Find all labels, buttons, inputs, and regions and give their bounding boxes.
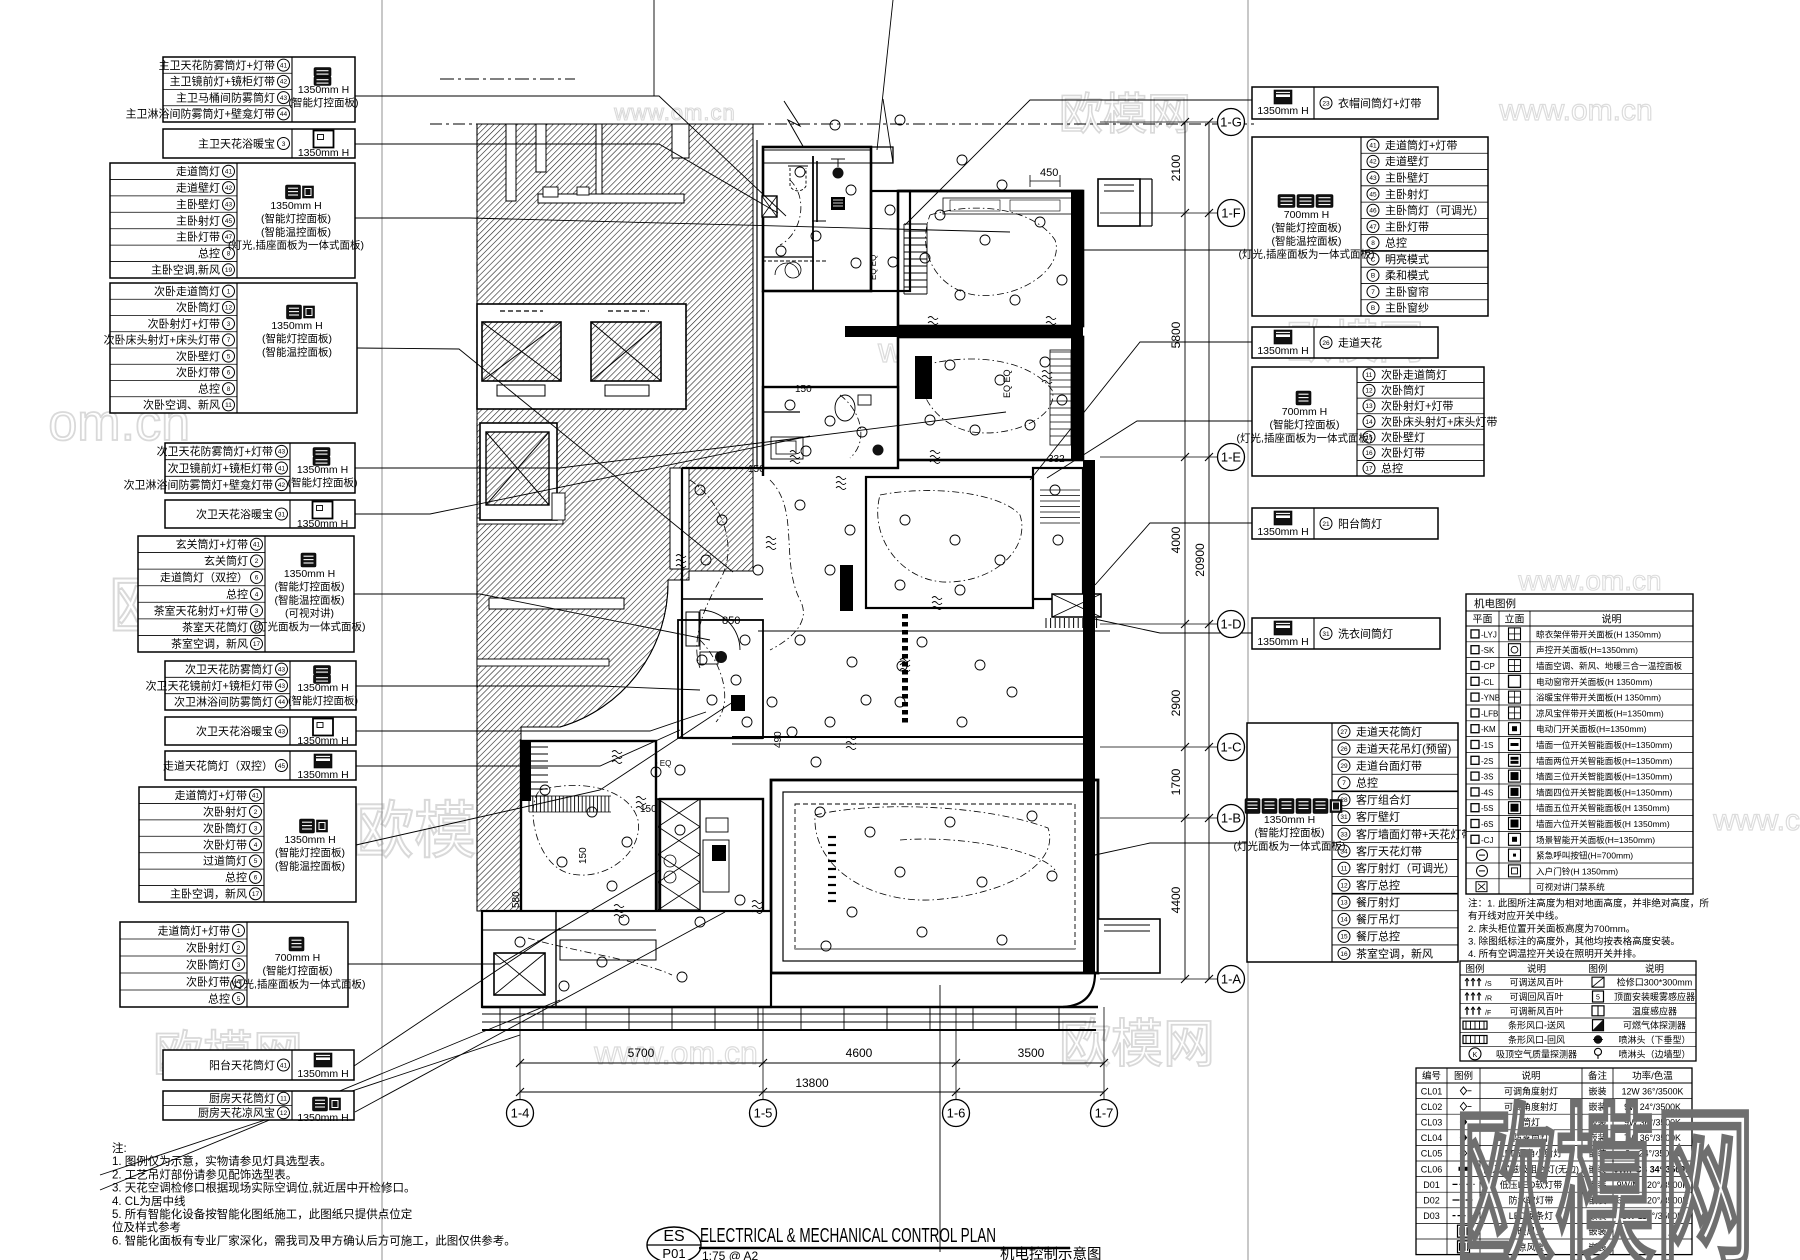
svg-text:次卧灯带: 次卧灯带	[1381, 445, 1425, 459]
svg-text:茶室天花筒灯: 茶室天花筒灯	[182, 620, 248, 634]
svg-text:走道天花吊灯(预留): 走道天花吊灯(预留)	[1356, 741, 1451, 755]
svg-text:(灯光,插座面板为一体式面板): (灯光,插座面板为一体式面板)	[228, 239, 364, 252]
svg-text:(智能灯控面板): (智能灯控面板)	[261, 212, 331, 225]
luminaire schedule table	[1416, 1068, 1692, 1255]
svg-text:41: 41	[253, 542, 261, 549]
svg-text:-SK: -SK	[1481, 646, 1495, 655]
svg-text:16: 16	[1340, 951, 1348, 958]
svg-text:(智能灯控面板): (智能灯控面板)	[1272, 221, 1342, 234]
annotation box L2 主卫浴暖宝	[163, 129, 355, 159]
svg-text:次卧空调、新风: 次卧空调、新风	[143, 398, 220, 412]
elevator shaft E3	[480, 423, 565, 520]
svg-text:150: 150	[795, 384, 812, 395]
svg-text:5800: 5800	[1169, 321, 1183, 348]
svg-text:可调回风百叶: 可调回风百叶	[1509, 992, 1563, 1002]
svg-text:顶面安装暖雾感应器: 顶面安装暖雾感应器	[1614, 991, 1695, 1002]
sheet fold line x=382	[381, 0, 383, 1260]
title block ES P01	[647, 1225, 1102, 1260]
svg-text:走道天花: 走道天花	[1338, 335, 1382, 349]
svg-text:31: 31	[1340, 814, 1348, 821]
svg-text:2. 床头柜位置开关面板高度为700mm。: 2. 床头柜位置开关面板高度为700mm。	[1468, 923, 1635, 935]
svg-text:走道筒灯+灯带: 走道筒灯+灯带	[1385, 138, 1457, 152]
svg-text:说明: 说明	[1645, 963, 1664, 975]
svg-text:43: 43	[278, 728, 286, 735]
svg-text:CL01: CL01	[1421, 1086, 1443, 1096]
svg-text:45: 45	[1369, 191, 1377, 198]
annotation box L1 主卫灯控	[126, 57, 359, 122]
svg-text:1-E: 1-E	[1221, 450, 1242, 465]
svg-text:走道壁灯: 走道壁灯	[1385, 154, 1429, 168]
svg-text:41: 41	[278, 465, 286, 472]
svg-text:8: 8	[227, 251, 231, 258]
kitchen walls	[658, 799, 763, 938]
svg-text:1-F: 1-F	[1221, 206, 1241, 221]
svg-text:欧模网: 欧模网	[1059, 1016, 1215, 1074]
annotation box L5 次卫灯控	[124, 443, 358, 493]
svg-text:150: 150	[640, 804, 657, 815]
svg-text:29: 29	[1340, 763, 1348, 770]
svg-text:可调新风百叶: 可调新风百叶	[1509, 1005, 1563, 1016]
svg-text:43: 43	[1369, 175, 1377, 182]
svg-text:欧模网: 欧模网	[1455, 1093, 1755, 1260]
second bathroom walls	[763, 387, 898, 468]
svg-text:(智能灯控面板): (智能灯控面板)	[275, 580, 345, 593]
svg-text:餐厅总控: 餐厅总控	[1356, 929, 1400, 943]
annotation box L4 次卧灯控	[104, 283, 357, 413]
annotation box L9 次卫2浴暖宝	[165, 717, 356, 747]
svg-text:(智能灯控面板): (智能灯控面板)	[288, 694, 358, 707]
master bathroom fixtures	[646, 159, 878, 768]
svg-text:www.c: www.c	[1712, 804, 1800, 837]
duct shaft at bath left wall	[762, 196, 777, 217]
svg-text:17: 17	[1365, 466, 1373, 473]
svg-text:主卧壁灯: 主卧壁灯	[176, 197, 220, 211]
svg-text:注:: 注:	[112, 1141, 127, 1155]
svg-text:有开线对应开关中线。: 有开线对应开关中线。	[1468, 910, 1564, 922]
svg-text:客厅墙面灯带+天花灯带: 客厅墙面灯带+天花灯带	[1356, 827, 1472, 841]
svg-text:主卧射灯: 主卧射灯	[1385, 187, 1429, 201]
bottom exterior windows	[482, 1007, 1098, 1030]
svg-text:850: 850	[722, 615, 740, 627]
svg-text:洗衣间筒灯: 洗衣间筒灯	[1338, 626, 1393, 640]
annotation box L3 主卧灯控	[110, 163, 364, 278]
svg-text:立面: 立面	[1505, 613, 1525, 626]
svg-text:主卧壁灯: 主卧壁灯	[1385, 170, 1429, 184]
svg-text:1350mm H: 1350mm H	[297, 464, 348, 476]
svg-text:5: 5	[227, 353, 231, 360]
svg-text:次卫天花浴暖宝: 次卫天花浴暖宝	[196, 724, 273, 738]
svg-text:45: 45	[225, 218, 233, 225]
svg-text:42: 42	[225, 185, 233, 192]
svg-text:/R: /R	[1485, 996, 1492, 1003]
svg-text:7: 7	[227, 337, 231, 344]
hvac legend table	[1460, 961, 1696, 1061]
svg-text:1:75 @ A2: 1:75 @ A2	[702, 1249, 759, 1260]
svg-text:次卫天花镜前灯+镜柜灯带: 次卫天花镜前灯+镜柜灯带	[146, 678, 273, 692]
svg-text:7: 7	[1371, 289, 1375, 296]
svg-text:机电图例: 机电图例	[1474, 597, 1516, 610]
svg-text:1-B: 1-B	[1221, 811, 1241, 826]
svg-text:墙面空调、新风、地暖三合一温控面板: 墙面空调、新风、地暖三合一温控面板	[1536, 660, 1683, 671]
svg-text:场景智能开关面板(H=1350mm): 场景智能开关面板(H=1350mm)	[1536, 834, 1655, 845]
AC platform top right	[1098, 179, 1152, 226]
svg-text:44: 44	[280, 111, 288, 118]
svg-text:编号: 编号	[1422, 1070, 1441, 1082]
ceiling wiring dashed loops	[528, 180, 1056, 975]
svg-text:走道筒灯+灯带: 走道筒灯+灯带	[158, 923, 230, 937]
svg-text:位及样式参考: 位及样式参考	[112, 1220, 181, 1234]
svg-text:次卧筒灯: 次卧筒灯	[176, 300, 220, 314]
svg-text:43: 43	[278, 683, 286, 690]
svg-text:46: 46	[1369, 208, 1377, 215]
svg-text:13800: 13800	[795, 1076, 829, 1090]
svg-text:4: 4	[254, 842, 258, 849]
svg-text:3500: 3500	[1018, 1046, 1045, 1060]
svg-text:温度感应器: 温度感应器	[1632, 1005, 1677, 1016]
svg-text:6: 6	[254, 875, 258, 882]
svg-text:26: 26	[1322, 340, 1330, 347]
svg-text:4. 所有空调温控开关设在照明开关并排。: 4. 所有空调温控开关设在照明开关并排。	[1468, 948, 1642, 960]
svg-text:43: 43	[280, 95, 288, 102]
svg-text:主卫马桶间防雾筒灯: 主卫马桶间防雾筒灯	[176, 90, 275, 104]
svg-text:阳台天花筒灯: 阳台天花筒灯	[209, 1058, 275, 1072]
svg-text:11: 11	[1366, 372, 1373, 379]
svg-text:(智能灯控面板): (智能灯控面板)	[289, 96, 359, 109]
svg-text:可燃气体探测器: 可燃气体探测器	[1623, 1020, 1686, 1031]
building core hatched region	[477, 124, 753, 911]
svg-text:42: 42	[278, 482, 286, 489]
svg-text:平面: 平面	[1473, 615, 1493, 626]
svg-text:次卧射灯: 次卧射灯	[203, 804, 247, 818]
svg-text:可调送风百叶: 可调送风百叶	[1509, 977, 1563, 988]
svg-text:可视对讲门禁系统: 可视对讲门禁系统	[1536, 881, 1605, 892]
annotation box L12 次卧2灯控	[120, 922, 365, 1007]
svg-text:主卫天花防雾筒灯+灯带: 主卫天花防雾筒灯+灯带	[159, 58, 275, 72]
svg-text:(智能温控面板): (智能温控面板)	[262, 345, 332, 358]
svg-text:电动门开关面板(H=1350mm): 电动门开关面板(H=1350mm)	[1536, 723, 1647, 734]
svg-text:-LFB: -LFB	[1481, 709, 1498, 718]
top parapet wall band	[766, 99, 893, 163]
svg-text:1-G: 1-G	[1220, 115, 1242, 130]
svg-text:580: 580	[511, 891, 522, 908]
svg-text:2: 2	[255, 558, 259, 565]
svg-text:走道筒灯（双控）: 走道筒灯（双控）	[160, 570, 248, 584]
elevator shaft E1	[482, 311, 561, 396]
svg-text:5: 5	[1596, 995, 1600, 1002]
svg-text:2. 工艺吊灯部份请参见配饰选型表。: 2. 工艺吊灯部份请参见配饰选型表。	[112, 1167, 297, 1181]
dining area beam wall	[732, 736, 1083, 738]
svg-text:332: 332	[1048, 454, 1065, 465]
svg-text:45: 45	[278, 763, 286, 770]
svg-text:紧急呼叫按钮(H=700mm): 紧急呼叫按钮(H=700mm)	[1536, 850, 1633, 861]
svg-text:5: 5	[254, 858, 258, 865]
svg-text:总控: 总控	[198, 246, 220, 260]
svg-text:主卧空调,新风: 主卧空调,新风	[151, 263, 220, 277]
svg-text:1-D: 1-D	[1221, 617, 1242, 632]
annotation box L10 走道筒灯	[163, 751, 356, 781]
svg-text:(灯光,插座面板为一体式面板): (灯光,插座面板为一体式面板)	[1239, 248, 1375, 261]
svg-text:总控: 总控	[208, 991, 230, 1005]
svg-text:主卫淋浴间防雾筒灯+壁龛灯带: 主卫淋浴间防雾筒灯+壁龛灯带	[126, 107, 275, 121]
svg-text:1700: 1700	[1169, 768, 1183, 795]
svg-text:27: 27	[1340, 729, 1348, 736]
svg-text:41: 41	[280, 62, 288, 69]
svg-text:43: 43	[278, 666, 286, 673]
svg-text:墙面一位开关智能面板(H=1350mm): 墙面一位开关智能面板(H=1350mm)	[1536, 739, 1672, 750]
svg-text:19: 19	[225, 267, 233, 274]
svg-text:(智能温控面板): (智能温控面板)	[261, 225, 331, 238]
lighting symbol circles	[515, 115, 1067, 991]
svg-text:41: 41	[252, 793, 260, 800]
svg-text:声控开关面板(H=1350mm): 声控开关面板(H=1350mm)	[1536, 644, 1638, 655]
svg-text:/S: /S	[1485, 981, 1492, 988]
annotation box R1 衣帽间	[1252, 87, 1438, 119]
legend table 机电图例	[1466, 594, 1693, 894]
svg-text:/F: /F	[1485, 1010, 1491, 1017]
svg-text:(智能温控面板): (智能温控面板)	[275, 593, 345, 606]
svg-text:1350mm H: 1350mm H	[284, 568, 335, 580]
svg-text:2: 2	[237, 945, 241, 952]
svg-text:(智能温控面板): (智能温控面板)	[1272, 234, 1342, 247]
svg-text:备注: 备注	[1588, 1070, 1608, 1082]
master bedroom walls	[898, 191, 1083, 326]
svg-text:(智能灯控面板): (智能灯控面板)	[1255, 826, 1325, 839]
svg-text:31: 31	[278, 511, 286, 518]
svg-text:主卧窗帘: 主卧窗帘	[1385, 284, 1429, 298]
svg-text:D03: D03	[1423, 1211, 1440, 1221]
svg-text:主卧灯带: 主卧灯带	[176, 231, 220, 244]
svg-text:700mm H: 700mm H	[1284, 209, 1330, 221]
svg-text:1350mm H: 1350mm H	[297, 518, 348, 530]
svg-text:2100: 2100	[1169, 154, 1183, 181]
svg-text:12: 12	[225, 305, 233, 312]
svg-text:次卧灯带: 次卧灯带	[186, 974, 230, 988]
svg-text:1350mm H: 1350mm H	[1257, 345, 1308, 357]
svg-text:次卧筒灯: 次卧筒灯	[186, 957, 230, 971]
bottom grid bubbles	[507, 1100, 1118, 1127]
svg-text:墙面两位开关智能面板(H=1350mm): 墙面两位开关智能面板(H=1350mm)	[1536, 755, 1672, 766]
switch wave symbols	[612, 317, 1056, 918]
second bedroom walls	[898, 337, 1083, 460]
svg-text:1350mm H: 1350mm H	[298, 84, 349, 96]
svg-text:说明: 说明	[1527, 963, 1546, 975]
svg-text:次卧灯带: 次卧灯带	[176, 365, 220, 379]
laundry room right	[1033, 468, 1101, 628]
svg-text:1350mm H: 1350mm H	[270, 200, 321, 212]
svg-text:(智能灯控面板): (智能灯控面板)	[275, 846, 345, 859]
svg-text:5: 5	[237, 996, 241, 1003]
svg-text:1: 1	[227, 288, 231, 295]
svg-text:3: 3	[282, 141, 286, 148]
svg-text:总控: 总控	[225, 870, 247, 884]
svg-text:4400: 4400	[1169, 886, 1183, 913]
svg-text:4000: 4000	[1169, 526, 1183, 553]
svg-text:(灯光,插座面板为一体式面板): (灯光,插座面板为一体式面板)	[230, 977, 366, 990]
svg-text:1: 1	[237, 928, 241, 935]
svg-text:6. 智能化面板有专业厂家深化，需我司及甲方确认后方可施工，: 6. 智能化面板有专业厂家深化，需我司及甲方确认后方可施工，此图仅供参考。	[112, 1233, 516, 1247]
svg-text:电动窗帘开关面板(H 1350mm): 电动窗帘开关面板(H 1350mm)	[1536, 676, 1653, 687]
svg-text:D02: D02	[1423, 1196, 1440, 1206]
svg-text:走道天花筒灯（双控）: 走道天花筒灯（双控）	[163, 758, 273, 772]
svg-text:-CJ: -CJ	[1481, 836, 1493, 845]
svg-text:柔和模式: 柔和模式	[1385, 269, 1429, 282]
svg-text:1350mm H: 1350mm H	[297, 1112, 348, 1124]
svg-text:1350mm H: 1350mm H	[1257, 105, 1308, 117]
corridor / foyer walls	[682, 291, 763, 738]
svg-text:客厅组合灯: 客厅组合灯	[1356, 793, 1411, 807]
svg-text:走道壁灯: 走道壁灯	[176, 180, 220, 194]
svg-text:玄关筒灯+灯带: 玄关筒灯+灯带	[176, 537, 248, 551]
svg-text:21: 21	[1322, 521, 1330, 528]
svg-text:-KM: -KM	[1481, 725, 1496, 734]
annotation box L6 次卫浴暖宝	[165, 500, 355, 530]
svg-text:主卫天花浴暖宝: 主卫天花浴暖宝	[198, 136, 275, 150]
svg-text:主卧筒灯（可调光）: 主卧筒灯（可调光）	[1385, 203, 1484, 217]
svg-text:150: 150	[748, 464, 765, 475]
svg-text:次卫淋浴间防雾筒灯+壁龛灯带: 次卫淋浴间防雾筒灯+壁龛灯带	[124, 477, 273, 491]
svg-text:条形风口-送风: 条形风口-送风	[1508, 1020, 1565, 1031]
svg-text:1350mm H: 1350mm H	[1257, 526, 1308, 538]
svg-text:明亮模式: 明亮模式	[1385, 252, 1429, 266]
svg-text:喷淋头（下垂型）: 喷淋头（下垂型）	[1618, 1034, 1690, 1045]
svg-text:走道筒灯: 走道筒灯	[176, 164, 220, 178]
right grid bubbles	[1218, 109, 1245, 993]
svg-text:B: B	[1371, 305, 1375, 312]
annotation box R2 主卧灯控	[1239, 137, 1488, 316]
svg-text:6: 6	[227, 370, 231, 377]
svg-text:42: 42	[1369, 159, 1377, 166]
svg-text:4. CL为居中线: 4. CL为居中线	[112, 1194, 186, 1208]
svg-text:1350mm H: 1350mm H	[297, 1068, 348, 1080]
svg-text:-LYJ: -LYJ	[1481, 630, 1497, 639]
svg-text:图例: 图例	[1465, 963, 1484, 975]
svg-text:走道天花筒灯: 走道天花筒灯	[1356, 724, 1422, 738]
svg-text:次卧筒灯: 次卧筒灯	[203, 821, 247, 835]
svg-text:www.om.cn: www.om.cn	[1498, 94, 1652, 127]
svg-text:茶室空调，新风: 茶室空调，新风	[1356, 946, 1433, 960]
svg-text:总控: 总控	[1381, 461, 1403, 475]
svg-text:(智能灯控面板): (智能灯控面板)	[263, 964, 333, 977]
svg-text:欧模网: 欧模网	[1059, 90, 1191, 139]
svg-text:3: 3	[255, 608, 259, 615]
svg-text:总控: 总控	[198, 381, 220, 395]
svg-text:-YNB: -YNB	[1481, 694, 1500, 703]
svg-text:EQ EQ: EQ EQ	[1002, 369, 1012, 398]
svg-text:(灯光面板为一体式面板): (灯光面板为一体式面板)	[1234, 839, 1346, 852]
AC platform bottom right	[1098, 919, 1160, 973]
svg-text:23: 23	[1322, 100, 1330, 107]
svg-text:次卫淋浴间防雾筒灯: 次卫淋浴间防雾筒灯	[174, 695, 273, 709]
middle family room walls	[758, 477, 1110, 631]
svg-text:墙面三位开关智能面板(H=1350mm): 墙面三位开关智能面板(H=1350mm)	[1536, 771, 1672, 782]
svg-text:次卧走道筒灯: 次卧走道筒灯	[1381, 368, 1447, 382]
svg-text:1-C: 1-C	[1221, 740, 1242, 755]
svg-text:ELECTRICAL & MECHANICAL CONTRO: ELECTRICAL & MECHANICAL CONTROL PLAN	[700, 1225, 996, 1247]
annotation box L7 玄关灯控	[138, 536, 366, 652]
svg-text:(智能灯控面板): (智能灯控面板)	[262, 332, 332, 345]
svg-text:凉风宝伴带开关面板(H=1350mm): 凉风宝伴带开关面板(H=1350mm)	[1536, 707, 1664, 718]
annotation box R5 阳台筒灯	[1252, 508, 1438, 539]
svg-text:功率/色温: 功率/色温	[1632, 1070, 1673, 1082]
svg-text:-CL: -CL	[1481, 678, 1494, 687]
svg-text:阳台筒灯: 阳台筒灯	[1338, 516, 1382, 530]
annotation box R3 走道天花	[1252, 327, 1438, 358]
svg-text:总控: 总控	[1356, 776, 1378, 790]
svg-text:31: 31	[1322, 631, 1330, 638]
svg-text:-5S: -5S	[1481, 804, 1493, 813]
svg-text:CL05: CL05	[1421, 1149, 1443, 1159]
svg-text:12: 12	[1365, 388, 1373, 395]
svg-text:主卧空调，新风: 主卧空调，新风	[170, 887, 247, 901]
svg-text:16: 16	[1365, 450, 1373, 457]
bottom-left bedroom walls	[521, 741, 656, 915]
svg-text:1350mm H: 1350mm H	[1264, 814, 1315, 826]
svg-text:4600: 4600	[846, 1046, 873, 1060]
svg-text:茶室天花射灯+灯带: 茶室天花射灯+灯带	[154, 603, 248, 617]
svg-text:6: 6	[255, 575, 259, 582]
svg-text:1. 图例仅为示意，实物请参见灯具选型表。: 1. 图例仅为示意，实物请参见灯具选型表。	[112, 1154, 332, 1168]
svg-text:走道台面灯带: 走道台面灯带	[1356, 758, 1422, 772]
svg-text:2: 2	[254, 809, 258, 816]
svg-text:次卫天花防雾筒灯+灯带: 次卫天花防雾筒灯+灯带	[157, 444, 273, 458]
svg-text:次卧射灯+灯带: 次卧射灯+灯带	[1381, 399, 1453, 413]
bedroom furniture rects	[943, 198, 1073, 445]
svg-text:8: 8	[227, 386, 231, 393]
svg-text:41: 41	[280, 1062, 288, 1069]
svg-text:吸顶空气质量探测器: 吸顶空气质量探测器	[1496, 1048, 1577, 1059]
svg-text:www.om.cn: www.om.cn	[613, 100, 735, 125]
annotation box R4 次卧灯控	[1237, 367, 1498, 476]
core wall channels (white)	[477, 124, 689, 666]
svg-text:17: 17	[253, 641, 261, 648]
svg-text:次卧床头射灯+床头灯带: 次卧床头射灯+床头灯带	[1381, 414, 1497, 428]
svg-text:44: 44	[278, 699, 286, 706]
svg-text:15: 15	[1340, 934, 1348, 941]
hallway to kitchen	[655, 741, 657, 915]
svg-text:3. 除图纸标注的高度外，其他均按表格高度安装。: 3. 除图纸标注的高度外，其他均按表格高度安装。	[1468, 935, 1680, 947]
sheet fold line x=1248	[1247, 0, 1249, 1260]
svg-text:13: 13	[1365, 403, 1373, 410]
walk-in closet wardrobe	[871, 191, 927, 294]
annotation box L11 走道灯控	[139, 787, 356, 902]
svg-text:www.om.cn: www.om.cn	[593, 1035, 758, 1071]
svg-text:3: 3	[237, 962, 241, 969]
elevator shaft E2	[591, 311, 661, 396]
property dash-dot line top left	[440, 78, 575, 80]
living room walls	[771, 780, 1098, 973]
bottom dimension lines	[516, 1007, 1108, 1099]
svg-text:次卧走道筒灯: 次卧走道筒灯	[154, 284, 220, 298]
svg-text:3: 3	[254, 825, 258, 832]
svg-text:-1S: -1S	[1481, 741, 1493, 750]
right exterior wall	[1063, 460, 1095, 1007]
svg-text:(灯光,插座面板为一体式面板): (灯光,插座面板为一体式面板)	[1237, 431, 1373, 444]
svg-text:12: 12	[1340, 882, 1348, 889]
svg-text:次卧灯带: 次卧灯带	[203, 837, 247, 851]
svg-text:过道筒灯: 过道筒灯	[203, 854, 247, 868]
svg-text:450: 450	[1040, 167, 1058, 179]
svg-text:42: 42	[280, 79, 288, 86]
svg-text:总控: 总控	[1385, 236, 1407, 250]
core boundary	[430, 123, 1258, 125]
svg-text:4: 4	[255, 591, 259, 598]
annotation box L14 厨房灯控	[163, 1091, 354, 1124]
svg-text:喷淋头（边墙型）: 喷淋头（边墙型）	[1618, 1048, 1690, 1059]
svg-text:1350mm H: 1350mm H	[297, 682, 348, 694]
svg-text:检修口300*300mm: 检修口300*300mm	[1617, 977, 1693, 988]
dining curtain dashed strip	[902, 614, 908, 723]
svg-text:CL03: CL03	[1421, 1118, 1443, 1128]
